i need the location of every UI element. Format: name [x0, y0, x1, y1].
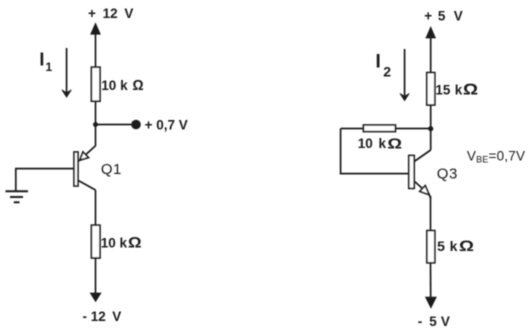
svg-text:- 5 V: - 5 V	[418, 314, 450, 329]
svg-text:15 k: 15 k	[435, 83, 462, 98]
svg-text:10 k: 10 k	[101, 235, 128, 250]
svg-text:2: 2	[383, 63, 391, 79]
svg-text:Ω: Ω	[463, 81, 479, 98]
svg-text:VBE=0,7V: VBE=0,7V	[467, 149, 525, 165]
svg-text:5 k: 5 k	[437, 238, 458, 254]
svg-text:I: I	[39, 49, 44, 69]
svg-text:1: 1	[46, 60, 53, 74]
svg-text:Ω: Ω	[459, 237, 474, 254]
svg-text:+ 5 V: + 5 V	[424, 8, 463, 23]
svg-text:Q1: Q1	[101, 161, 122, 178]
svg-text:+ 12 V: + 12 V	[88, 6, 133, 21]
svg-text:Ω: Ω	[128, 234, 142, 250]
svg-text:- 12 V: - 12 V	[83, 309, 122, 324]
svg-text:10 k Ω: 10 k Ω	[101, 78, 143, 94]
svg-text:I: I	[376, 52, 381, 73]
svg-text:Ω: Ω	[387, 136, 402, 152]
svg-text:Q3: Q3	[437, 166, 458, 183]
svg-text:+ 0,7 V: + 0,7 V	[145, 118, 188, 133]
svg-text:10 k: 10 k	[358, 136, 387, 151]
